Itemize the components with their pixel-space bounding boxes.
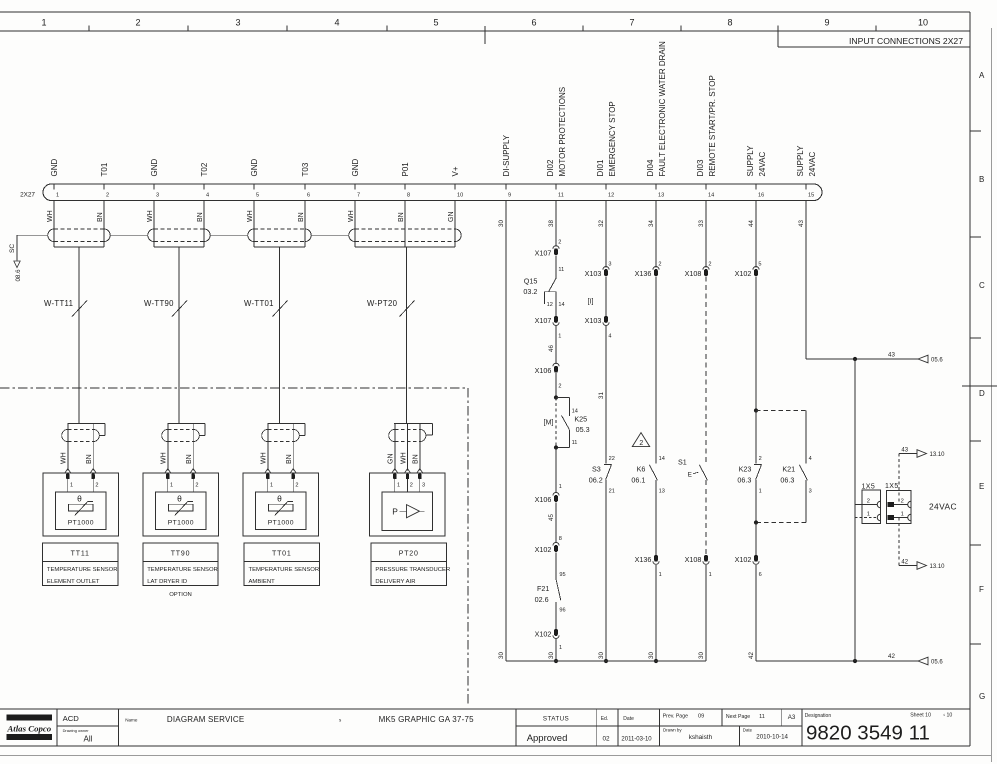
svg-text:W-TT11: W-TT11 (44, 299, 73, 308)
svg-text:4: 4 (206, 193, 209, 199)
svg-text:DELIVERY AIR: DELIVERY AIR (375, 579, 415, 585)
connector pin X136:2 (635, 267, 659, 279)
Atlas Copco logo (6, 714, 52, 740)
svg-text:[I]: [I] (588, 298, 594, 305)
svg-text:T01: T01 (100, 162, 109, 176)
svg-text:1: 1 (901, 512, 904, 518)
wire K23 to X102:6 (755, 523, 757, 555)
svg-text:45: 45 (548, 514, 555, 521)
svg-text:24VAC: 24VAC (808, 152, 817, 177)
svg-text:X102: X102 (735, 269, 752, 278)
svg-text:D: D (979, 389, 985, 398)
svg-text:12: 12 (608, 193, 614, 199)
svg-text:31: 31 (598, 392, 605, 399)
svg-text:2: 2 (867, 498, 870, 504)
wire 11 X107 to Q15 (556, 256, 564, 279)
svg-text:BN: BN (97, 212, 104, 222)
svg-text:B: B (979, 175, 984, 184)
svg-text:2: 2 (195, 482, 198, 488)
svg-text:10: 10 (918, 18, 928, 28)
signal label DI02 MOTOR PROTECTIONS pin 11 (546, 87, 567, 177)
svg-text:BN: BN (413, 454, 420, 464)
label box TT01 (244, 543, 319, 586)
svg-text:DI02: DI02 (546, 159, 555, 176)
svg-text:Designation: Designation (805, 713, 832, 719)
svg-text:4: 4 (809, 456, 812, 462)
wire 43 from pin 15 (798, 201, 918, 359)
svg-text:X106: X106 (535, 495, 552, 504)
row letters A-G on right margin (962, 71, 997, 701)
wire K6 to X136:1 (655, 480, 657, 555)
svg-text:TT01: TT01 (272, 551, 292, 558)
svg-text:05.3: 05.3 (576, 425, 590, 434)
off-page arrow SC to 08.6 (9, 244, 22, 282)
svg-text:02: 02 (603, 736, 611, 743)
svg-text:BN: BN (197, 212, 204, 222)
svg-text:W-TT90: W-TT90 (144, 299, 174, 308)
svg-text:4: 4 (608, 333, 611, 339)
svg-text:8: 8 (407, 193, 410, 199)
svg-text:ELEMENT OUTLET: ELEMENT OUTLET (47, 579, 100, 585)
wire 30 X102 to 0V bus (548, 639, 556, 661)
wire X106 to K25 node (555, 373, 557, 397)
svg-text:X106: X106 (535, 366, 552, 375)
svg-text:11: 11 (759, 714, 765, 720)
svg-text:Name: Name (125, 718, 138, 723)
svg-text:2: 2 (708, 261, 711, 267)
svg-text:2: 2 (658, 261, 661, 267)
connector pin X106:2 (535, 363, 562, 389)
svg-text:SUPPLY: SUPPLY (746, 145, 755, 177)
svg-text:Q15: Q15 (524, 276, 538, 285)
svg-text:5: 5 (256, 193, 259, 199)
optional wire S1 to X108:1 (dashed) (705, 480, 707, 555)
svg-text:BN: BN (298, 212, 305, 222)
cabinet boundary dash-dot line (0, 388, 468, 704)
terminal block 1X5 right (885, 483, 911, 524)
svg-text:WH: WH (400, 452, 407, 464)
svg-text:02.6: 02.6 (535, 595, 549, 604)
warning triangle 2 (632, 433, 649, 448)
connector pin X103:4 (585, 316, 612, 339)
svg-text:F21: F21 (537, 584, 549, 593)
svg-text:42: 42 (748, 652, 755, 659)
breaker auxiliary contact Q15 03.2 pins 11-12-14 (523, 276, 564, 316)
terminal block 1X5 left (862, 483, 881, 523)
svg-text:WH: WH (147, 210, 154, 222)
wire 33 from pin 14 (698, 201, 712, 268)
svg-text:Date: Date (743, 727, 753, 732)
svg-text:MK5 GRAPHIC GA 37-75: MK5 GRAPHIC GA 37-75 (379, 715, 474, 724)
svg-text:03.2: 03.2 (523, 287, 537, 296)
svg-text:14: 14 (708, 193, 714, 199)
svg-text:θ: θ (177, 494, 182, 504)
svg-text:PT1000: PT1000 (268, 520, 294, 527)
svg-text:GND: GND (150, 159, 159, 177)
off-page arrow 43 to 05.6 (918, 355, 943, 363)
svg-text:‹ 10: ‹ 10 (943, 713, 952, 719)
temperature sensor TT90 (143, 469, 219, 536)
svg-text:REMOTE START/PR. STOP: REMOTE START/PR. STOP (708, 75, 717, 176)
svg-text:43: 43 (901, 447, 908, 453)
wire X102 to K23 node (755, 276, 757, 410)
0V bus wire 30 (506, 660, 706, 662)
svg-text:Drawn by: Drawn by (663, 727, 682, 732)
svg-text:95: 95 (559, 572, 565, 578)
emergency stop contact S3 06.2 pins 22-21 (589, 456, 615, 495)
signal label SUPPLY 24VAC pin 15 (796, 145, 817, 177)
wire 42 from 1X5:1 (dashed) (898, 518, 900, 566)
svg-text:06.3: 06.3 (737, 475, 751, 484)
svg-text:33: 33 (698, 220, 705, 227)
cable shield W-TT11 at connector (48, 201, 111, 424)
svg-text:7: 7 (357, 193, 360, 199)
cable label W-PT20 (367, 299, 415, 317)
svg-text:PT1000: PT1000 (168, 520, 194, 527)
connector pin X107:2 (535, 239, 562, 257)
wire 44 from pin 16 (748, 201, 762, 268)
svg-text:BN: BN (398, 212, 405, 222)
svg-text:44: 44 (748, 220, 755, 227)
svg-text:15: 15 (808, 193, 814, 199)
svg-text:3: 3 (235, 18, 240, 28)
svg-text:2: 2 (558, 383, 561, 389)
svg-text:θ: θ (77, 494, 82, 504)
wire 30 X108 to 0V bus (698, 565, 706, 661)
wire riser to 1X5:1 (dashed) (855, 517, 877, 519)
svg-text:13: 13 (659, 489, 665, 495)
connector pin X102:8 (535, 542, 559, 554)
title block (0, 709, 970, 746)
svg-text:P01: P01 (401, 162, 410, 177)
svg-text:14: 14 (572, 408, 578, 414)
svg-text:W-PT20: W-PT20 (367, 299, 398, 308)
svg-text:WH: WH (61, 452, 68, 464)
svg-text:X108: X108 (685, 555, 702, 564)
svg-text:1: 1 (558, 333, 561, 339)
cable shield W-PT20 at connector (349, 201, 461, 424)
wire 34 from pin 13 (648, 201, 662, 268)
svg-text:K23: K23 (739, 464, 752, 473)
svg-text:2: 2 (295, 482, 298, 488)
off-page arrow 42 to 13.10 (899, 559, 945, 570)
svg-text:5: 5 (758, 261, 761, 267)
svg-text:WH: WH (161, 452, 168, 464)
cable label W-TT90 (144, 299, 187, 317)
svg-text:30: 30 (648, 652, 655, 659)
svg-text:X136: X136 (635, 555, 652, 564)
svg-text:DI-SUPPLY: DI-SUPPLY (502, 134, 511, 176)
label box PT20 (371, 543, 450, 586)
svg-text:21: 21 (609, 489, 615, 495)
wire DI-SUPPLY pin 9 to 0V bus, wire 30 (498, 201, 506, 661)
svg-text:2: 2 (759, 456, 762, 462)
title block texts (63, 713, 953, 745)
svg-text:32: 32 (598, 220, 605, 227)
svg-text:BN: BN (186, 454, 193, 464)
svg-text:2: 2 (106, 193, 109, 199)
label box TT11 (43, 543, 118, 586)
svg-text:LAT DRYER ID: LAT DRYER ID (147, 579, 187, 585)
svg-text:30: 30 (548, 652, 555, 659)
svg-text:6: 6 (759, 572, 762, 578)
svg-text:STATUS: STATUS (543, 716, 569, 723)
svg-text:WH: WH (348, 210, 355, 222)
svg-text:PRESSURE TRANSDUCER: PRESSURE TRANSDUCER (375, 567, 450, 573)
svg-text:1: 1 (41, 18, 46, 28)
svg-text:9820 3549 11: 9820 3549 11 (806, 722, 930, 745)
svg-text:96: 96 (559, 608, 565, 614)
connector pin X106:1 (535, 492, 559, 504)
svg-text:2: 2 (558, 239, 561, 245)
svg-text:TEMPERATURE SENSOR: TEMPERATURE SENSOR (249, 567, 320, 573)
svg-text:12: 12 (547, 302, 553, 308)
svg-text:K6: K6 (637, 464, 646, 473)
wire 30 X136 to 0V bus (648, 565, 656, 661)
svg-text:WH: WH (247, 210, 254, 222)
svg-text:06.3: 06.3 (780, 475, 794, 484)
svg-text:K25: K25 (574, 415, 587, 424)
node bus junction col 11 (554, 659, 558, 663)
svg-text:2010-10-14: 2010-10-14 (756, 734, 788, 741)
svg-text:SUPPLY: SUPPLY (796, 145, 805, 177)
svg-text:Prev. Page: Prev. Page (663, 714, 688, 720)
svg-text:05.6: 05.6 (931, 357, 943, 363)
node bus junction at riser (853, 659, 857, 663)
svg-text:TEMPERATURE SENSOR: TEMPERATURE SENSOR (47, 567, 118, 573)
svg-text:2: 2 (410, 482, 413, 488)
svg-text:7: 7 (629, 18, 634, 28)
svg-text:13.10: 13.10 (930, 452, 946, 458)
svg-text:9: 9 (508, 193, 511, 199)
svg-text:A3: A3 (788, 714, 796, 721)
connector pin X108:2 (685, 267, 709, 279)
svg-text:S1: S1 (678, 457, 687, 466)
svg-text:GN: GN (388, 454, 395, 465)
connector pin X102:1 (535, 629, 563, 651)
svg-text:6: 6 (307, 193, 310, 199)
svg-text:30: 30 (698, 652, 705, 659)
svg-text:1X5: 1X5 (862, 483, 876, 490)
svg-text:34: 34 (648, 220, 655, 227)
svg-text:16: 16 (758, 193, 764, 199)
wire 32 from pin 12 (598, 201, 612, 268)
svg-text:2: 2 (135, 18, 140, 28)
column ruler ticks and numbers 1-10 (41, 18, 928, 45)
svg-text:DI04: DI04 (646, 159, 655, 176)
svg-text:24VAC: 24VAC (929, 502, 957, 512)
svg-text:DI03: DI03 (696, 159, 705, 176)
svg-text:8: 8 (559, 536, 562, 542)
svg-text:Drawing owner: Drawing owner (63, 728, 90, 733)
svg-text:GND: GND (250, 159, 259, 177)
svg-text:AMBIENT: AMBIENT (249, 579, 276, 585)
pressure transducer PT20 (369, 469, 445, 536)
svg-text:3: 3 (156, 193, 159, 199)
svg-text:9: 9 (824, 18, 829, 28)
svg-text:EMERGENCY STOP: EMERGENCY STOP (608, 101, 617, 176)
wire 45 X106 to X102 (548, 502, 562, 543)
svg-text:4: 4 (334, 18, 339, 28)
svg-text:06.1: 06.1 (631, 475, 645, 484)
svg-text:A: A (979, 71, 985, 80)
wire riser to 1X5:2 (855, 504, 877, 506)
svg-text:X107: X107 (535, 248, 552, 257)
svg-text:5: 5 (433, 18, 438, 28)
overload relay contact F21 02.6 pins 95-96 (535, 579, 566, 629)
svg-text:3: 3 (608, 261, 611, 267)
svg-text:46: 46 (548, 345, 555, 352)
wire 31 X103 to S3 (598, 326, 606, 464)
cable shield W-TT90 at sensor (161, 423, 206, 470)
svg-text:WH: WH (261, 452, 268, 464)
connector pin X103:3 (585, 267, 609, 279)
svg-text:E: E (688, 471, 692, 478)
wire X103:3 to X103:4 with key symbol [I] (588, 276, 606, 316)
svg-text:DIAGRAM SERVICE: DIAGRAM SERVICE (167, 715, 245, 724)
svg-text:TT90: TT90 (171, 551, 191, 558)
relay contact K21 06.3 pins 4-3 parallel branch (756, 411, 812, 523)
svg-text:X102: X102 (535, 629, 552, 638)
svg-text:42: 42 (901, 559, 908, 565)
svg-text:P: P (392, 507, 398, 517)
connector pin X102:5 (735, 267, 759, 279)
svg-text:C: C (979, 281, 985, 290)
wire K25 to X106:1 (556, 448, 562, 494)
svg-text:38: 38 (548, 220, 555, 227)
svg-text:2: 2 (901, 498, 904, 504)
svg-text:WH: WH (47, 210, 54, 222)
wire 43 to 1X5:2 (dashed) (898, 454, 900, 505)
relay contact K6 06.1 pins 14-13 (631, 456, 664, 495)
svg-text:INPUT CONNECTIONS 2X27: INPUT CONNECTIONS 2X27 (849, 36, 963, 46)
svg-text:1: 1 (170, 482, 173, 488)
svg-text:X103: X103 (585, 316, 602, 325)
svg-text:24VAC: 24VAC (758, 152, 767, 177)
relay contact K23 06.3 pins 2-1 (737, 411, 761, 523)
svg-text:DI01: DI01 (596, 159, 605, 176)
svg-text:10: 10 (457, 193, 463, 199)
svg-text:6: 6 (531, 18, 536, 28)
svg-text:X103: X103 (585, 269, 602, 278)
label box TT90 (143, 543, 218, 586)
connector pin X102:6 (735, 555, 762, 578)
svg-text:2X27: 2X27 (20, 192, 35, 199)
svg-text:43: 43 (888, 351, 895, 358)
svg-text:1: 1 (659, 572, 662, 578)
svg-text:1: 1 (709, 572, 712, 578)
svg-text:30: 30 (498, 652, 505, 659)
svg-text:2011-03-10: 2011-03-10 (621, 737, 652, 743)
optional wire X108 to S1 (dashed) (705, 276, 707, 463)
wire X136 to K6 (655, 276, 657, 463)
svg-text:K21: K21 (782, 464, 795, 473)
node wire 43 junction (853, 357, 857, 361)
svg-text:F: F (979, 585, 984, 594)
svg-text:Approved: Approved (527, 733, 568, 744)
svg-text:30: 30 (498, 220, 505, 227)
svg-text:X102: X102 (535, 545, 552, 554)
wire 38 from pin 11 (548, 201, 556, 247)
emergency stop button S1 (678, 457, 707, 480)
cable shield W-TT01 at sensor (261, 423, 306, 470)
svg-text:Next Page: Next Page (726, 714, 750, 720)
svg-text:S3: S3 (592, 464, 601, 473)
svg-text:1: 1 (867, 512, 870, 518)
svg-text:1X5: 1X5 (885, 483, 899, 490)
connector pin X107:1 (535, 316, 562, 339)
svg-text:1: 1 (70, 482, 73, 488)
svg-text:8: 8 (727, 18, 732, 28)
cable label W-TT11 (44, 299, 87, 317)
svg-text:X102: X102 (735, 555, 752, 564)
svg-text:kshaisth: kshaisth (689, 734, 713, 741)
cable shield W-TT90 at connector (148, 201, 211, 424)
svg-text:06.2: 06.2 (589, 475, 603, 484)
svg-text:1: 1 (559, 484, 562, 490)
auxiliary contact K25 05.3 pins 14-11 with manual link [M] (544, 398, 590, 448)
svg-text:11: 11 (558, 193, 564, 199)
svg-text:OPTION: OPTION (169, 592, 192, 598)
svg-text:SC: SC (9, 244, 16, 253)
2X27 pin ticks and pin numbers (54, 184, 814, 199)
svg-text:GND: GND (351, 159, 360, 177)
svg-text:T03: T03 (301, 162, 310, 176)
signal label DI04 FAULT ELECTRONIC WATER DRAIN pin 13 (646, 41, 667, 176)
svg-text:42: 42 (888, 653, 895, 660)
svg-text:1: 1 (759, 489, 762, 495)
wire colour labels WH/BN/GN at connector (47, 210, 455, 222)
svg-text:θ: θ (277, 494, 282, 504)
signal label DI01 EMERGENCY STOP pin 12 (596, 101, 617, 176)
wire 30 S3 to 0V bus (598, 480, 606, 661)
svg-text:3: 3 (809, 489, 812, 495)
cable shield W-PT20 at sensor (388, 423, 433, 470)
wire X102 to F21 (556, 552, 566, 579)
node bus junction col 12 (604, 659, 608, 663)
node K23/K21 bottom junction (754, 520, 758, 524)
svg-text:2: 2 (639, 440, 643, 447)
svg-text:13.10: 13.10 (930, 564, 946, 570)
svg-text:1: 1 (559, 645, 562, 651)
cable label W-TT01 (244, 299, 288, 317)
svg-text:Date: Date (623, 716, 634, 722)
svg-text:BN: BN (286, 454, 293, 464)
signal label SUPPLY 24VAC pin 16 (746, 145, 767, 177)
cable shield W-TT11 at sensor (61, 423, 106, 470)
svg-text:05.6: 05.6 (931, 659, 943, 665)
svg-text:ACD: ACD (63, 714, 80, 723)
svg-text:T02: T02 (200, 162, 209, 176)
svg-text:All: All (84, 735, 93, 744)
svg-text:X107: X107 (535, 316, 552, 325)
temperature sensor TT11 (43, 469, 119, 536)
signal label DI03 REMOTE START/PR. STOP pin 14 (696, 75, 717, 176)
svg-text:FAULT ELECTRONIC WATER DRAIN: FAULT ELECTRONIC WATER DRAIN (658, 41, 667, 176)
svg-text:2: 2 (95, 482, 98, 488)
svg-text:X136: X136 (635, 269, 652, 278)
svg-text:E: E (979, 482, 984, 491)
off-page arrow 43 to 13.10 (899, 447, 945, 458)
connector pin X108:1 (685, 555, 712, 578)
svg-text:43: 43 (798, 220, 805, 227)
svg-text:MOTOR PROTECTIONS: MOTOR PROTECTIONS (558, 87, 567, 177)
svg-text:22: 22 (609, 456, 615, 462)
svg-text:TEMPERATURE SENSOR: TEMPERATURE SENSOR (147, 567, 218, 573)
svg-text:11: 11 (572, 440, 578, 446)
svg-text:Sheet 10: Sheet 10 (910, 713, 931, 719)
svg-text:30: 30 (598, 652, 605, 659)
